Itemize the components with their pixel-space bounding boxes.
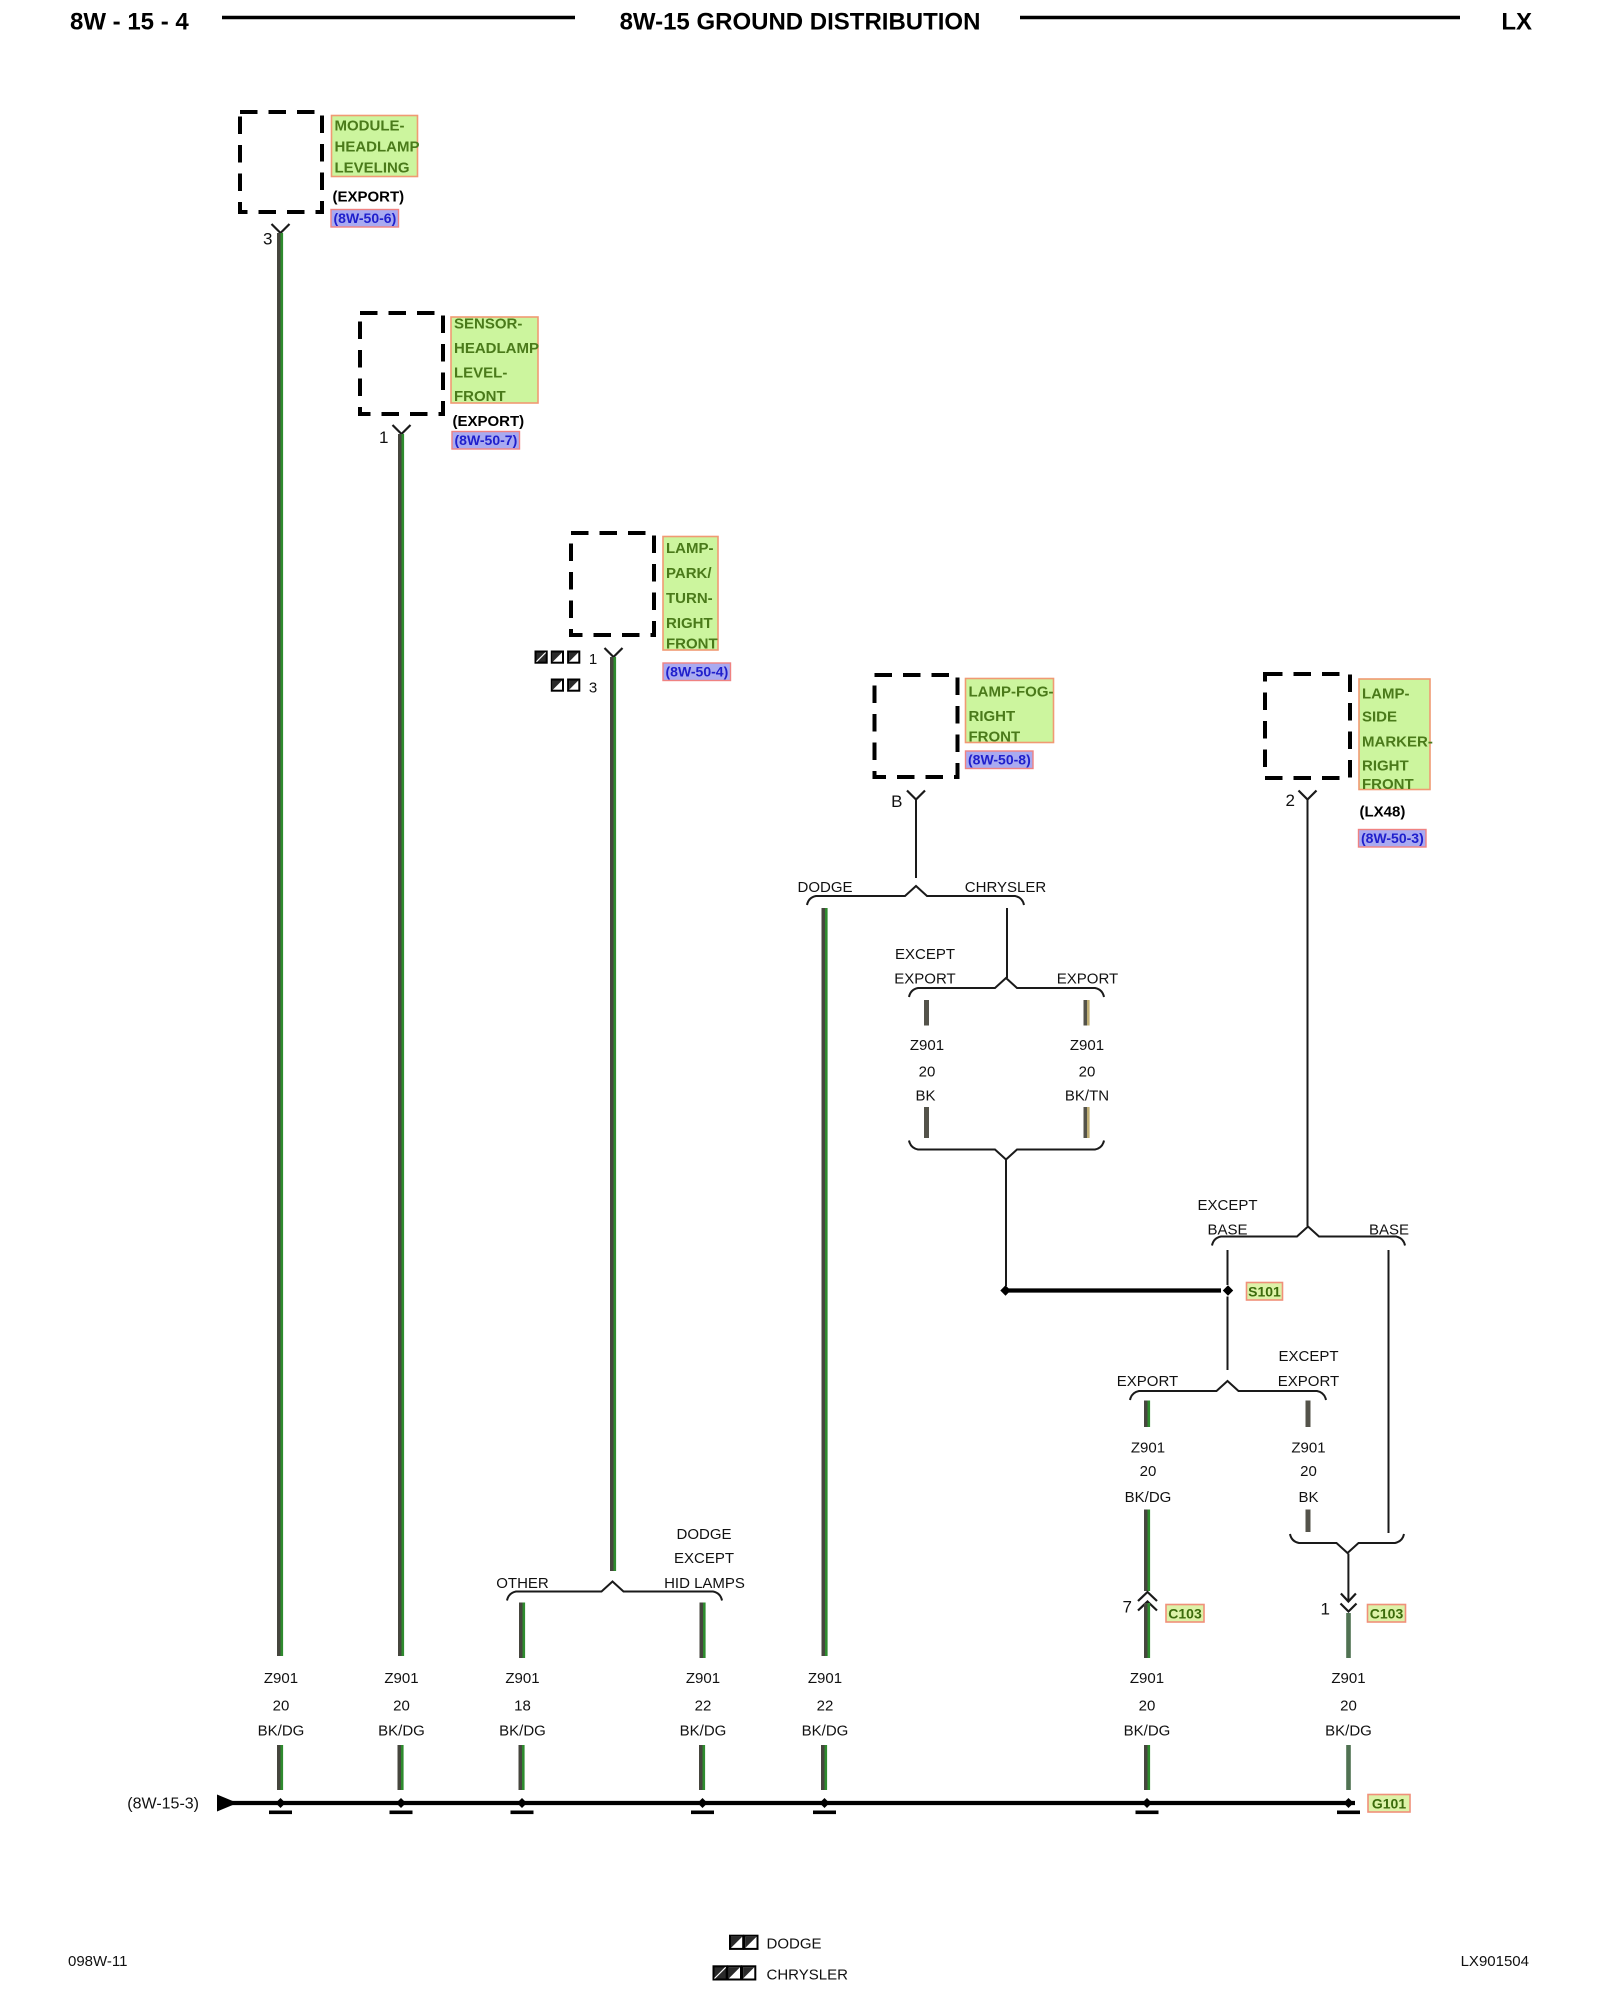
wire from side marker pin 2	[1307, 800, 1309, 1227]
ground splice node col3	[517, 1798, 527, 1808]
tag G101 ground	[1368, 1795, 1410, 1813]
svg-text:3: 3	[263, 230, 272, 249]
brace split EXCEPT BASE/BASE	[1212, 1227, 1405, 1246]
svg-text:EXCEPT: EXCEPT	[1278, 1348, 1338, 1365]
svg-text:LEVELING: LEVELING	[335, 160, 410, 177]
reference (8W-50-7)	[452, 432, 520, 450]
connector Y symbol pin 3	[272, 224, 290, 233]
connector box LAMP-SIDE MARKER-RIGHT FRONT (LX48)	[1265, 674, 1350, 778]
wire stub Z901 20 BK upper	[924, 1000, 929, 1026]
svg-text:EXCEPT: EXCEPT	[1197, 1197, 1257, 1214]
connector box LAMP-PARK/TURN-RIGHT FRONT	[571, 533, 654, 635]
svg-text:20: 20	[919, 1064, 936, 1081]
svg-text:Z901: Z901	[808, 1670, 842, 1687]
svg-text:3: 3	[589, 680, 597, 697]
wire stub to ground bus col5	[821, 1745, 827, 1790]
reference (8W-50-8)	[966, 751, 1034, 769]
wire Z901 22 BK/DG dodge-except-hid branch	[700, 1603, 706, 1659]
connector C103 pin 7 chevrons	[1138, 1592, 1157, 1611]
svg-text:Z901: Z901	[1070, 1037, 1104, 1054]
svg-text:FRONT: FRONT	[454, 388, 506, 405]
reference (8W-50-3)	[1359, 830, 1427, 848]
svg-text:FRONT: FRONT	[666, 636, 718, 653]
svg-text:(8W-50-8): (8W-50-8)	[968, 752, 1031, 768]
svg-text:18: 18	[514, 1698, 531, 1715]
svg-text:CHRYSLER: CHRYSLER	[965, 879, 1047, 896]
svg-text:CHRYSLER: CHRYSLER	[767, 1966, 849, 1983]
svg-text:Z901: Z901	[686, 1670, 720, 1687]
reference (8W-50-4)	[663, 663, 731, 681]
svg-text:Z901: Z901	[1291, 1440, 1325, 1457]
wire stub to ground bus col7	[1346, 1745, 1351, 1790]
svg-text:EXPORT: EXPORT	[1278, 1373, 1339, 1390]
wire stub to ground bus col4	[699, 1745, 705, 1790]
svg-text:(EXPORT): (EXPORT)	[333, 189, 405, 206]
svg-text:RIGHT: RIGHT	[1362, 758, 1409, 775]
svg-text:DODGE: DODGE	[676, 1526, 731, 1543]
connector Y symbol side marker pin 2	[1299, 791, 1317, 800]
svg-text:22: 22	[817, 1698, 834, 1715]
svg-text:Z901: Z901	[1131, 1440, 1165, 1457]
brace split EXCEPT EXPORT/EXPORT fog	[909, 978, 1104, 997]
svg-text:HEADLAMP: HEADLAMP	[335, 139, 420, 156]
tag S101	[1247, 1283, 1283, 1301]
svg-text:Z901: Z901	[910, 1037, 944, 1054]
svg-text:S101: S101	[1248, 1284, 1281, 1300]
connector C103 pin 1 chevron	[1341, 1604, 1357, 1612]
ground splice node col4	[698, 1798, 708, 1808]
svg-text:Z901: Z901	[505, 1670, 539, 1687]
ground splice node col1	[276, 1798, 286, 1808]
wire stub to ground bus col6	[1144, 1745, 1150, 1790]
svg-text:MODULE-: MODULE-	[335, 118, 405, 135]
svg-text:22: 22	[695, 1698, 712, 1715]
wire except-base branch to splice S101	[1227, 1250, 1229, 1285]
svg-text:EXCEPT: EXCEPT	[895, 946, 955, 963]
tag C103 left	[1166, 1605, 1204, 1623]
wire Z901 20 BK/DG below C103 pin 1	[1346, 1613, 1351, 1658]
brace split EXPORT/EXCEPT EXPORT	[1130, 1381, 1326, 1400]
connector Y symbol sensor pin 1	[393, 425, 411, 434]
pin 1 marker squares (Chrysler)	[536, 652, 547, 663]
svg-text:HID LAMPS: HID LAMPS	[664, 1575, 745, 1592]
header rule left	[222, 16, 575, 20]
legend DODGE symbol	[730, 1936, 743, 1949]
svg-text:RIGHT: RIGHT	[666, 615, 713, 632]
svg-text:BK/DG: BK/DG	[680, 1723, 727, 1740]
svg-text:2: 2	[1286, 791, 1295, 810]
reference (8W-50-6)	[331, 210, 399, 228]
svg-text:LX901504: LX901504	[1461, 1953, 1529, 1970]
wire stub BK to merge brace	[1306, 1510, 1311, 1533]
splice S101 horizontal bus	[1008, 1288, 1221, 1292]
wire Z901 20 BK/DG to C103	[1144, 1510, 1150, 1592]
brace merge fog chrysler variants	[909, 1141, 1104, 1160]
ground splice node col2	[396, 1798, 406, 1808]
wire stub to ground bus col1	[277, 1745, 283, 1790]
wire Z901 22 BK/DG Dodge fog branch	[822, 908, 828, 1656]
svg-text:BK/DG: BK/DG	[378, 1723, 425, 1740]
svg-text:20: 20	[273, 1698, 290, 1715]
svg-text:BK/TN: BK/TN	[1065, 1088, 1109, 1105]
ground bus wire to G101	[230, 1801, 1355, 1805]
ground splice node col5	[820, 1798, 830, 1808]
svg-text:1: 1	[379, 428, 388, 447]
svg-text:SENSOR-: SENSOR-	[454, 316, 522, 333]
brace split OTHER/DODGE-EXCEPT-HID-LAMPS	[507, 1582, 722, 1601]
wire Z901 BK/DG from lamp-park	[610, 657, 616, 1571]
svg-text:HEADLAMP: HEADLAMP	[454, 340, 539, 357]
svg-text:LEVEL-: LEVEL-	[454, 365, 507, 382]
wire Z901 20 BK/DG from module pin 3	[277, 233, 283, 1656]
svg-text:BK/DG: BK/DG	[258, 1723, 305, 1740]
svg-text:LAMP-: LAMP-	[1362, 686, 1410, 703]
wire base branch down right side	[1388, 1250, 1390, 1533]
wire Z901 18 BK/DG other branch	[519, 1603, 525, 1659]
svg-text:MARKER-: MARKER-	[1362, 734, 1433, 751]
wire stub Z901 20 BK/TN upper	[1084, 1000, 1090, 1026]
svg-text:SIDE: SIDE	[1362, 709, 1397, 726]
svg-text:TURN-: TURN-	[666, 590, 713, 607]
connector box LAMP-FOG-RIGHT FRONT	[875, 675, 958, 777]
svg-text:EXPORT: EXPORT	[1057, 971, 1118, 988]
svg-text:BK/DG: BK/DG	[499, 1723, 546, 1740]
svg-text:1: 1	[1321, 1600, 1330, 1619]
svg-text:20: 20	[1300, 1463, 1317, 1480]
svg-text:(LX48): (LX48)	[1360, 804, 1406, 821]
ground bus arrow	[217, 1795, 238, 1812]
wire from fog lamp pin B	[915, 800, 917, 879]
svg-text:(8W-15-3): (8W-15-3)	[127, 1796, 199, 1813]
ground splice node col6	[1142, 1798, 1152, 1808]
connector box MODULE-HEADLAMP LEVELING (EXPORT)	[240, 112, 322, 212]
wire chrysler fog to splice S101	[1005, 1160, 1007, 1286]
svg-text:C103: C103	[1168, 1606, 1202, 1622]
splice node left	[1000, 1285, 1010, 1295]
svg-text:(EXPORT): (EXPORT)	[453, 413, 525, 430]
svg-text:B: B	[891, 792, 902, 811]
wire Chrysler fog branch	[1006, 908, 1008, 978]
svg-text:LX: LX	[1501, 9, 1532, 36]
svg-text:G101: G101	[1372, 1796, 1406, 1812]
wire from S101 down	[1227, 1297, 1229, 1371]
wire arrow down to C103 pin 1	[1347, 1554, 1349, 1602]
header rule right	[1020, 16, 1460, 20]
svg-text:098W-11: 098W-11	[68, 1953, 127, 1970]
svg-text:8W-15 GROUND DISTRIBUTION: 8W-15 GROUND DISTRIBUTION	[620, 9, 981, 36]
label LAMP-SIDE MARKER-RIGHT FRONT	[1359, 679, 1433, 793]
svg-text:BK/DG: BK/DG	[1124, 1723, 1171, 1740]
svg-text:1: 1	[589, 651, 597, 668]
label MODULE-HEADLAMP LEVELING	[332, 116, 420, 177]
svg-text:LAMP-: LAMP-	[666, 540, 714, 557]
svg-text:OTHER: OTHER	[496, 1575, 549, 1592]
wire stub to ground bus col2	[398, 1745, 404, 1790]
svg-text:BK/DG: BK/DG	[802, 1723, 849, 1740]
svg-text:EXPORT: EXPORT	[894, 971, 955, 988]
svg-text:C103: C103	[1370, 1606, 1404, 1622]
wire stub Z901 20 BK lower	[924, 1107, 929, 1138]
svg-text:BK/DG: BK/DG	[1125, 1489, 1172, 1506]
svg-text:EXCEPT: EXCEPT	[674, 1550, 734, 1567]
brace merge BK/BASE branches	[1290, 1534, 1404, 1553]
svg-text:Z901: Z901	[384, 1670, 418, 1687]
svg-text:20: 20	[1340, 1698, 1357, 1715]
svg-text:Z901: Z901	[264, 1670, 298, 1687]
svg-text:PARK/: PARK/	[666, 565, 712, 582]
connector box SENSOR-HEADLAMP LEVEL-FRONT (EXPORT)	[360, 313, 443, 414]
wire stub to ground bus col3	[519, 1745, 525, 1790]
splice node right S101	[1223, 1285, 1233, 1295]
svg-text:EXPORT: EXPORT	[1117, 1373, 1178, 1390]
svg-text:(8W-50-7): (8W-50-7)	[455, 432, 518, 448]
svg-text:LAMP-FOG-: LAMP-FOG-	[969, 684, 1054, 701]
svg-text:20: 20	[1139, 1698, 1156, 1715]
svg-text:(8W-50-3): (8W-50-3)	[1361, 830, 1424, 846]
wire Z901 20 BK/DG below C103 pin 7	[1144, 1603, 1150, 1658]
svg-text:(8W-50-6): (8W-50-6)	[334, 210, 397, 226]
pin 3 marker squares (Dodge)	[552, 680, 563, 691]
label LAMP-PARK/TURN-RIGHT FRONT	[663, 537, 718, 653]
wire stub Z901 20 BK except-export branch	[1306, 1401, 1311, 1428]
svg-text:FRONT: FRONT	[969, 729, 1021, 746]
svg-text:(8W-50-4): (8W-50-4)	[666, 664, 729, 680]
wire stub Z901 20 BK/TN lower	[1084, 1107, 1090, 1138]
brace split DODGE/CHRYSLER	[807, 886, 1024, 905]
svg-text:20: 20	[1140, 1463, 1157, 1480]
svg-text:BK: BK	[1298, 1489, 1318, 1506]
svg-text:BK/DG: BK/DG	[1325, 1723, 1372, 1740]
connector Y symbol fog lamp pin B	[907, 791, 925, 800]
svg-text:FRONT: FRONT	[1362, 776, 1414, 793]
tag C103 right	[1368, 1605, 1406, 1623]
svg-text:20: 20	[393, 1698, 410, 1715]
svg-text:DODGE: DODGE	[767, 1936, 822, 1953]
wire stub Z901 20 BK/DG export branch	[1144, 1401, 1150, 1428]
svg-text:RIGHT: RIGHT	[969, 708, 1016, 725]
svg-text:8W - 15 - 4: 8W - 15 - 4	[70, 9, 189, 36]
ground splice node col7	[1344, 1798, 1354, 1808]
wire Z901 20 BK/DG from sensor pin 1	[398, 434, 404, 1656]
svg-text:DODGE: DODGE	[797, 879, 852, 896]
legend CHRYSLER symbol	[714, 1966, 727, 1979]
connector Y symbol lamp-park	[605, 648, 623, 657]
svg-text:Z901: Z901	[1130, 1670, 1164, 1687]
svg-text:BK: BK	[915, 1088, 935, 1105]
svg-text:Z901: Z901	[1331, 1670, 1365, 1687]
svg-text:7: 7	[1123, 1598, 1132, 1617]
label SENSOR-HEADLAMP LEVEL-FRONT	[451, 316, 539, 406]
label LAMP-FOG-RIGHT FRONT	[966, 679, 1054, 746]
svg-text:20: 20	[1079, 1064, 1096, 1081]
